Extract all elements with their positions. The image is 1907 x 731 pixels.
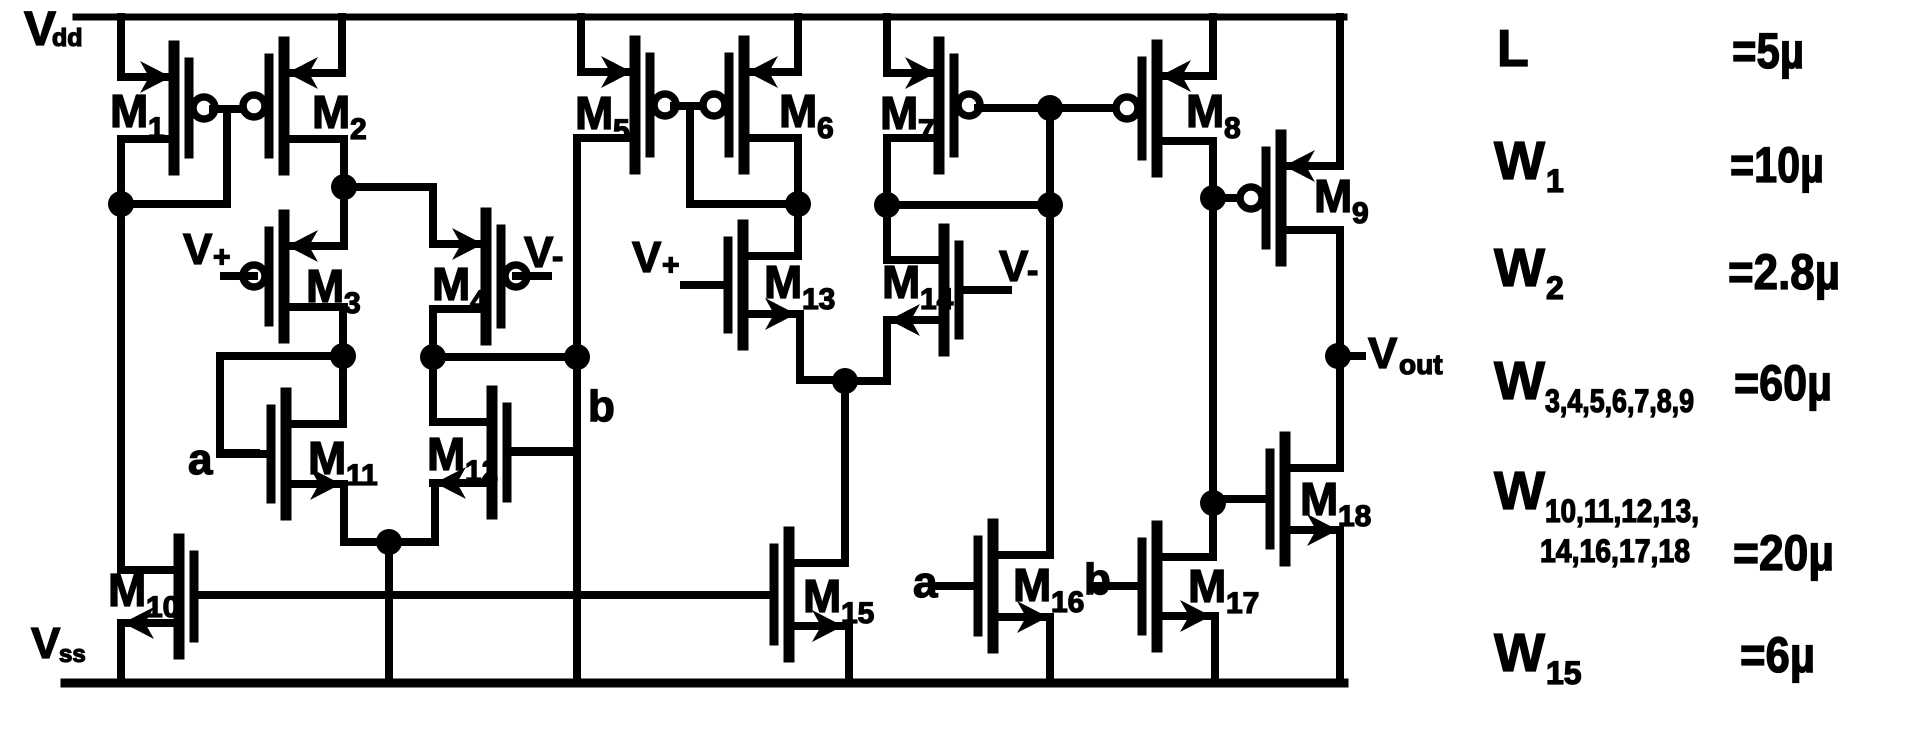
wire M11 drain up to node a [339,356,347,424]
svg-text:4: 4 [470,285,487,318]
svg-text:a: a [188,435,213,484]
label M17 [1188,560,1259,620]
wire node a gate drop [216,356,224,453]
wire M4 drain down [429,309,437,357]
wire M7/M8 gate tie left [978,104,1039,112]
label Vout [1368,329,1443,380]
svg-text:1: 1 [148,112,165,145]
svg-text:M: M [880,87,918,139]
wire down to M4 source [429,187,437,244]
wire M5 drain to node b line [577,134,635,142]
label M11 [308,432,378,492]
svg-text:M: M [1186,85,1224,137]
value label W3,4,5,6,7,8,9 [1494,351,1694,419]
transistor M14 (NMOS) [887,229,1008,351]
junction M7 drain node [874,192,900,218]
svg-text:1: 1 [1546,163,1564,199]
svg-text:M: M [108,564,146,616]
svg-text:7: 7 [918,114,935,147]
junction M6 drain node [785,191,811,217]
svg-text:V: V [632,233,662,282]
wire M11 source down [340,484,348,542]
wire M9 gate lead [1213,194,1240,202]
wire M5/M6 gate bubble tie [674,102,706,110]
wire Vdd to M7 source [883,17,891,73]
power rail Vdd [76,14,1344,21]
wire M13 source down [796,314,804,380]
wire M14 source down [883,320,891,381]
svg-text:3,4,5,6,7,8,9: 3,4,5,6,7,8,9 [1545,383,1694,419]
svg-text:=2.8µ: =2.8µ [1728,244,1840,300]
svg-text:12: 12 [465,455,498,488]
svg-text:dd: dd [52,24,83,52]
label M14 [882,256,954,316]
junction M4/M12 drain node [420,344,446,370]
wire Vdd to M8 source [1209,17,1217,76]
wire M4 drain node to node b line [433,353,577,361]
svg-text:=20µ: =20µ [1733,525,1834,581]
wire Vdd to M5 source [577,17,585,72]
svg-text:W: W [1494,623,1545,683]
svg-text:11: 11 [346,459,378,492]
transistor M13 (NMOS) [684,225,798,345]
wire M7/M8 gate tie right [1050,104,1114,112]
svg-text:M: M [1314,170,1352,222]
svg-text:M: M [803,570,841,622]
svg-text:2: 2 [350,113,367,146]
label M15 [803,570,874,630]
value label W10,11,12,13,14,16,17,18 [1494,461,1699,569]
svg-text:10,11,12,13,: 10,11,12,13, [1545,493,1699,529]
svg-text:M: M [306,260,344,312]
label M7 [880,87,935,147]
svg-text:=6µ: =6µ [1740,627,1815,683]
value label W15 [1494,623,1582,691]
wire bias line M10 gate to M15 gate [194,591,774,599]
wire Vdd to M1 source [117,17,125,77]
wire node a to M11 gate (left) [220,352,343,360]
power rail Vss [65,679,1344,688]
label V- input of M4 [524,228,563,277]
label Vss [31,619,86,668]
svg-text:10: 10 [146,591,179,624]
junction differential pair tail [376,529,402,555]
svg-text:=10µ: =10µ [1730,137,1824,193]
label M3 [306,260,361,320]
label M16 [1013,559,1084,619]
wire M2 drain node to M4 source branch [344,183,433,191]
transistor M1 (PMOS) [121,46,215,170]
svg-text:2: 2 [1546,270,1564,306]
svg-text:M: M [779,85,817,137]
wire to M11 gate [220,449,256,457]
transistor M10 (NMOS) [121,539,194,654]
transistor M17 (NMOS) [1096,526,1213,647]
svg-text:L: L [1497,20,1529,78]
svg-text:W: W [1494,131,1545,191]
junction Vout node [1325,343,1351,369]
wire M8 drain down to M17 drain [1209,141,1217,557]
svg-text:17: 17 [1226,587,1259,620]
value label W1 [1494,131,1564,199]
svg-text:M: M [312,86,350,138]
label V+ input of M3 [183,225,231,274]
svg-text:8: 8 [1224,112,1241,145]
wire M1/M2 gate bubbles tie [213,105,246,113]
svg-text:b: b [1084,555,1111,604]
svg-text:15: 15 [1546,655,1582,691]
svg-text:M: M [432,258,470,310]
label M2 [312,86,367,146]
wire down to M3 source [340,187,348,246]
wire M15 source corner [845,626,853,683]
wire gate tie down to mirror node [223,109,231,204]
label M13 [764,256,835,316]
svg-text:V: V [183,225,213,274]
svg-text:M: M [575,87,613,139]
wire M7 drain to gate-line drop [887,201,1050,209]
transistor M5 (PMOS) [581,41,676,169]
transistor M6 (PMOS) [703,41,798,169]
svg-text:+: + [662,249,680,282]
wire M7 drain node down to M14 drain [883,205,891,260]
value label W2 [1494,238,1564,306]
label M5 [575,87,630,147]
wire M12 drain up [429,357,437,422]
junction M2 drain node [331,174,357,200]
svg-text:16: 16 [1051,586,1084,619]
svg-text:6: 6 [817,112,834,145]
wire node down to M10 drain [117,204,125,570]
wire Vdd to M2 source [338,17,346,73]
label V+ input of M13 [632,233,680,282]
junction M7/M8 gate tie [1037,95,1063,121]
transistor M7 (PMOS) [887,42,980,169]
svg-text:5: 5 [613,114,630,147]
transistor M9 (PMOS) [1240,135,1340,261]
svg-text:V: V [31,619,61,668]
svg-text:a: a [913,558,938,607]
wire node b vertical line [573,138,581,683]
svg-text:M: M [1013,559,1051,611]
svg-text:M: M [427,428,465,480]
wire gate tie to M6 drain node [690,200,798,208]
svg-text:+: + [213,241,231,274]
transistor M8 (PMOS) [1116,45,1213,172]
transistor M18 (NMOS) [1213,437,1340,561]
wire Vout stub [1338,352,1362,360]
wire M10 source to Vss [117,623,125,683]
svg-text:=5µ: =5µ [1732,23,1804,79]
wire M1 drain down to node A1 [117,139,125,208]
junction node a (M3/M11 drain) [330,343,356,369]
svg-text:M: M [764,256,802,308]
svg-text:-: - [1027,252,1038,290]
transistor M3 (PMOS) [224,215,344,338]
wire M7 drain down [883,138,891,205]
svg-text:M: M [1188,560,1226,612]
junction M8 drain / M9 gate node [1200,185,1226,211]
svg-text:out: out [1399,349,1443,380]
wire M11/M12 source tie [344,538,435,546]
wire M12 source down [431,483,439,542]
svg-text:=60µ: =60µ [1734,355,1832,411]
wire M6 drain down to M13 drain [794,138,802,256]
svg-text:ss: ss [59,641,86,668]
svg-text:13: 13 [802,283,835,316]
wire tail to Vss [385,542,393,683]
wire mirror node down to M16 drain [1046,205,1054,555]
label M12 [427,428,498,488]
junction node b [564,344,590,370]
wire M2 drain down [340,139,348,187]
svg-text:W: W [1494,238,1545,298]
wire M12 gate to node b [508,447,577,455]
svg-text:b: b [588,382,615,431]
label V- input of M14 [999,242,1038,291]
wire M17 source to Vss [1211,616,1219,683]
wire M18 source to Vss [1336,530,1344,683]
svg-text:14,16,17,18: 14,16,17,18 [1540,533,1690,569]
label M10 [108,564,179,624]
transistor M2 (PMOS) [243,42,342,170]
wire Vdd to M9 source [1336,17,1344,166]
svg-text:14: 14 [920,283,954,316]
label M8 [1186,85,1241,145]
wire M16 source to Vss [1046,617,1054,683]
junction M1 drain/gate node [108,191,134,217]
svg-text:V: V [1368,329,1398,378]
wire M13 source to tail [800,376,845,384]
label M1 [110,85,165,145]
wire mirror node horizontal [117,200,227,208]
transistor M11 (NMOS) [220,393,343,515]
svg-text:M: M [308,432,346,484]
svg-text:W: W [1494,461,1545,521]
wire M14 source to tail [845,377,887,385]
svg-text:M: M [110,85,148,137]
svg-text:9: 9 [1352,197,1369,230]
svg-text:M: M [882,256,920,308]
wire gate tie drop [686,106,694,204]
svg-text:M: M [1300,473,1338,525]
label M6 [779,85,834,145]
svg-text:V: V [524,228,554,277]
svg-text:-: - [552,238,563,276]
wire M3 drain down to node a [339,307,347,356]
wire M9 drain down to M18 drain [1336,230,1344,468]
junction M8 drain / M18 gate tap [1200,490,1226,516]
junction M13/M14 tail node [832,368,858,394]
wire Vdd to M6 source [794,17,802,72]
wire tail down to M15 drain [841,381,849,563]
wire gate tie drop to mirror node [1046,108,1054,205]
transistor M12 (NMOS) [433,391,577,514]
label Vdd [24,3,83,56]
junction gate-line drop node [1037,192,1063,218]
transistor M15 (NMOS) [774,532,845,657]
svg-text:W: W [1494,351,1545,411]
transistor M16 (NMOS) [932,524,1050,648]
transistor M4 (PMOS) [433,213,548,340]
label M4 [432,258,487,318]
label M18 [1300,473,1371,533]
label M9 [1314,170,1369,230]
svg-text:V: V [999,242,1029,291]
